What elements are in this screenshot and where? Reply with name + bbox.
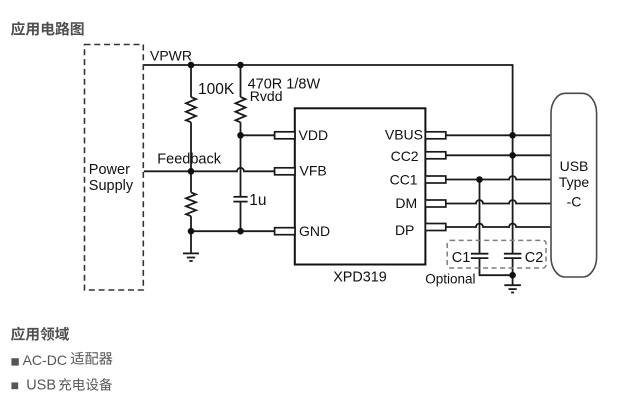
svg-text:Power: Power	[89, 162, 130, 178]
svg-text:VFB: VFB	[300, 163, 327, 179]
svg-text:Optional: Optional	[425, 271, 475, 286]
svg-text:XPD319: XPD319	[333, 269, 387, 285]
svg-text:Supply: Supply	[89, 178, 134, 194]
svg-text:USB: USB	[560, 158, 589, 174]
svg-text:Rvdd: Rvdd	[250, 88, 283, 104]
svg-text:C1: C1	[452, 250, 471, 266]
svg-text:GND: GND	[299, 223, 330, 239]
svg-text:VDD: VDD	[299, 127, 329, 143]
svg-text:VBUS: VBUS	[385, 127, 423, 143]
svg-text:Feedback: Feedback	[157, 151, 221, 167]
svg-text:C2: C2	[525, 250, 544, 266]
svg-text:USB: USB	[26, 377, 56, 393]
svg-text:VPWR: VPWR	[150, 47, 192, 63]
svg-text:DM: DM	[395, 195, 417, 211]
svg-text:CC2: CC2	[391, 148, 419, 164]
svg-text:100K: 100K	[198, 81, 235, 98]
svg-text:Type: Type	[559, 174, 590, 190]
svg-text:-C: -C	[567, 194, 582, 210]
svg-text:AC-DC: AC-DC	[23, 352, 67, 368]
svg-text:CC1: CC1	[390, 172, 418, 188]
svg-text:DP: DP	[395, 222, 414, 238]
svg-text:1u: 1u	[249, 192, 266, 209]
